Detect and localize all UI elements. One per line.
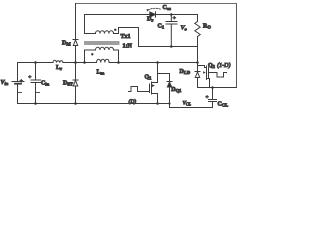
svg-text:(D): (D) [129,98,137,105]
svg-text:C1: C1 [158,24,165,30]
svg-text:Vo: Vo [181,25,188,32]
diode D_ST [73,80,78,104]
gate pulse symbol Q1 [129,87,141,92]
svg-text:VCL: VCL [183,100,192,106]
junction D_M/D_ST branch [74,61,77,64]
svg-text:+: + [173,16,176,22]
svg-text:+: + [28,75,31,81]
svg-text:DQ1: DQ1 [171,87,182,93]
wire node A down and to Q2 [198,47,205,66]
junction C_in bottom [34,102,37,105]
svg-text:DST: DST [63,81,73,87]
node dot C1 top [170,13,173,16]
inductor L_m [97,59,110,62]
wire output bottom rail [139,28,198,47]
svg-text:Dr: Dr [147,17,153,23]
Tx primary polarity dot [91,53,93,55]
transformer Tx1 primary winding [85,47,119,62]
wire node-B horizontal to right edge [198,87,237,89]
diode D_r [150,12,198,17]
transistor Q1 [141,63,158,104]
junction D_Q1 bottom [168,102,170,104]
svg-text:+: + [20,78,23,84]
minus C_in [37,92,40,94]
transformer Tx1 secondary winding [85,15,139,34]
junction C_CL top [211,86,214,89]
junction D_ST bottom [74,102,77,105]
inductor L_r [53,60,63,62]
svg-text:RO: RO [203,24,211,30]
svg-text:Q1: Q1 [145,75,153,81]
dashed current arc over D_r [146,8,161,11]
junction node A [196,61,199,64]
junction Tx1 primary right [117,61,120,64]
wire top secondary rail [85,14,150,16]
wire outer clamp loop top/right [76,4,237,88]
ground rail [18,104,213,108]
svg-text:Cin: Cin [41,81,50,87]
junction C_in top [34,61,37,64]
diode D_Q1 [167,82,172,104]
Tx secondary polarity dot [114,29,116,31]
wire [63,62,97,64]
diode D_M [73,40,78,63]
svg-text:Cos: Cos [163,5,172,11]
svg-text:Lm: Lm [97,70,105,76]
junction Q1 drain [156,61,159,64]
svg-text:Q2(1-D): Q2(1-D) [208,62,230,69]
svg-text:DLD: DLD [180,69,191,75]
node dot C1 bottom [170,45,173,48]
diode D_LD [195,66,200,88]
main primary wire [18,62,54,64]
wire left vertical between junction and D_ST [75,63,77,81]
junction Tx1 primary left [83,61,86,64]
transformer core [85,42,120,44]
capacitor C_CL [209,88,217,108]
svg-text:Lr: Lr [56,65,62,71]
minus V_in [19,92,22,94]
wire left vertical D_M/D_ST branch upper [75,4,77,40]
svg-text:CCL: CCL [218,102,229,108]
capacitor C_in [31,63,41,104]
svg-text:1:N: 1:N [123,44,133,50]
capacitor C1 [166,15,177,47]
gate pulse symbol Q2 [215,73,227,78]
svg-text:DM: DM [62,41,71,47]
wire [109,62,197,64]
svg-text:+: + [206,95,209,101]
svg-text:Tx1: Tx1 [121,34,131,40]
wire Q1 drain to D_Q1 [158,74,170,82]
resistor R_O [195,15,200,47]
transistor Q2 [203,66,214,88]
source V_in [12,63,24,104]
svg-text:Vin: Vin [1,80,9,86]
junction Q1 source [156,102,159,105]
